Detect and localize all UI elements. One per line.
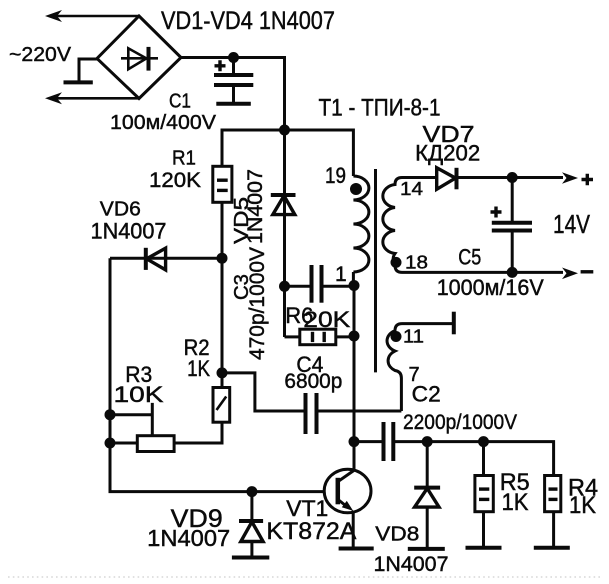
resistor R1: [213, 166, 232, 202]
node R5 top: [478, 436, 489, 447]
diode VD5 bar: [271, 193, 296, 197]
svg-text:14: 14: [400, 179, 423, 199]
wire: C3 to pin1: [322, 285, 355, 288]
svg-text:VD1-VD4 1N4007: VD1-VD4 1N4007: [161, 7, 335, 35]
pin 18 dot: [391, 257, 402, 268]
C1 bottom terminal bar: [216, 102, 251, 106]
svg-text:C2: C2: [412, 382, 441, 407]
node left rail upper: [105, 409, 116, 420]
svg-text:C1: C1: [169, 90, 191, 113]
svg-text:1K: 1K: [187, 356, 210, 381]
diode VD6 wire: [110, 257, 222, 260]
VD8 terminal bar: [408, 547, 445, 551]
transistor VT1 collector diagonal: [338, 471, 354, 482]
capacitor C4 plates: [304, 393, 308, 434]
bridge inner diode triangle: [128, 48, 146, 69]
node C5 top: [507, 172, 518, 183]
AC input terminal bar: [64, 80, 93, 84]
svg-text:~220V: ~220V: [9, 43, 71, 66]
R5 terminal bar: [466, 546, 502, 550]
bottom dotted border: [8, 576, 602, 578]
transformer primary winding: [353, 176, 369, 272]
node VD9: [246, 486, 257, 497]
node VD6-R1 junction: [217, 253, 228, 264]
svg-text:VD6: VD6: [100, 198, 141, 221]
arrow minus output: [562, 268, 578, 280]
node pin 1: [349, 280, 360, 291]
plus output sign: [582, 174, 594, 185]
node VD8 top: [422, 436, 433, 447]
svg-text:2200p/1000V: 2200p/1000V: [403, 411, 517, 434]
resistor R2: [213, 388, 230, 423]
svg-text:14V: 14V: [553, 209, 591, 239]
pin 11 dot: [391, 331, 402, 342]
svg-text:18: 18: [405, 252, 428, 272]
diode VD9: [250, 492, 253, 521]
svg-text:KT872A: KT872A: [266, 518, 356, 545]
resistor R6: [300, 329, 336, 345]
wire: top rail bridge to right: [181, 58, 285, 131]
svg-text:1N4007: 1N4007: [244, 169, 267, 244]
transformer core: [374, 169, 377, 372]
wire: R2 bottom to R3: [174, 422, 222, 443]
pin 19 dot: [350, 183, 362, 195]
node top of VD5 column: [279, 125, 290, 136]
svg-text:1N4007: 1N4007: [374, 553, 449, 576]
resistor R6 wire right: [336, 335, 354, 338]
R4 terminal bar: [534, 546, 570, 550]
svg-text:1N4007: 1N4007: [147, 525, 230, 551]
node R2 top: [217, 367, 228, 378]
capacitor C5: [511, 178, 514, 223]
node collector/C2: [349, 436, 360, 447]
svg-text:1K: 1K: [502, 489, 529, 516]
transformer secondary winding: [383, 178, 563, 273]
wire: R2 node to C4: [222, 373, 306, 411]
wire: C2 to R4: [393, 442, 553, 476]
transistor VT1 base bar: [336, 478, 341, 505]
wire: VD5 column vertical: [283, 58, 286, 338]
capacitor C5 plus sign: [491, 207, 502, 218]
wire: emitter down: [352, 511, 355, 549]
wire: R3 wiper: [110, 403, 152, 436]
node R6 right: [349, 331, 360, 342]
svg-text:1N4007: 1N4007: [91, 219, 167, 244]
arrow AC top: [45, 10, 62, 22]
diode VD5 triangle: [273, 196, 295, 215]
diode VD6 bar: [144, 248, 148, 270]
svg-text:19: 19: [325, 163, 346, 188]
svg-text:100м/400V: 100м/400V: [110, 111, 216, 134]
wire: AC input stub: [79, 59, 97, 82]
resistor R4: [545, 476, 561, 512]
svg-text:R1: R1: [172, 147, 196, 170]
wire: rail to R3: [110, 442, 137, 445]
capacitor C1 plus sign: [215, 60, 226, 71]
diode VD6 triangle: [147, 248, 166, 270]
wire: primary bottom to pin1: [352, 272, 355, 286]
svg-text:20K: 20K: [303, 307, 350, 332]
svg-text:VD8: VD8: [375, 524, 419, 546]
wire: node to C3: [285, 285, 312, 288]
node C5 bottom: [507, 267, 518, 278]
arrow AC bottom: [45, 92, 62, 104]
wire: AC top line to bridge: [52, 15, 139, 18]
svg-text:11: 11: [403, 327, 424, 347]
wire: to C2: [354, 440, 384, 443]
transformer feedback winding: [387, 324, 454, 411]
bridge inner diode bar: [147, 47, 151, 71]
transistor VT1 circle: [324, 469, 371, 513]
wire: R1 bottom to R2 top: [221, 202, 224, 387]
diode VD7 triangle: [437, 168, 456, 190]
svg-text:10K: 10K: [114, 382, 164, 407]
diode VD7 bar: [455, 168, 459, 190]
svg-text:120K: 120K: [149, 169, 201, 192]
transistor VT1 emitter diagonal with arrow: [338, 500, 348, 508]
svg-text:1: 1: [335, 263, 347, 286]
wire: C4 to pin7: [317, 410, 402, 413]
emitter terminal bar: [339, 547, 374, 551]
resistor R6 wire left: [285, 335, 300, 338]
svg-text:470p/1000V: 470p/1000V: [246, 247, 269, 360]
bridge rectifier VD1-VD4 diamond: [97, 16, 181, 99]
wire: VD7 to plus output: [457, 176, 564, 179]
VD9 terminal bar: [232, 556, 269, 560]
svg-text:1000м/16V: 1000м/16V: [437, 275, 544, 300]
minus output sign: [581, 270, 594, 273]
capacitor C3 plates: [310, 265, 314, 303]
feedback winding terminal bar: [452, 312, 456, 335]
svg-text:1K: 1K: [569, 492, 596, 519]
wire: AC bottom line to bridge: [52, 97, 139, 100]
wire: left rail down: [110, 258, 324, 491]
svg-text:T1 - ТПИ-8-1: T1 - ТПИ-8-1: [319, 95, 441, 122]
svg-text:6800p: 6800p: [284, 370, 342, 393]
capacitor C2 plates: [382, 422, 386, 461]
diode VD8: [426, 442, 429, 488]
svg-text:КД202: КД202: [415, 141, 480, 166]
svg-text:C5: C5: [458, 245, 481, 270]
capacitor C1: [232, 58, 235, 76]
resistor R5: [482, 442, 485, 476]
wire: mid vertical pin1 to collector: [353, 286, 356, 470]
node left rail lower: [105, 438, 116, 449]
wire: second rail: [222, 130, 353, 176]
node C3 left: [279, 281, 290, 292]
node C1 tap: [228, 52, 239, 63]
resistor R3: [137, 436, 174, 452]
arrow plus output: [562, 172, 578, 184]
resistor R2 diagonal: [217, 397, 227, 411]
bridge inner diode lead: [121, 57, 158, 60]
